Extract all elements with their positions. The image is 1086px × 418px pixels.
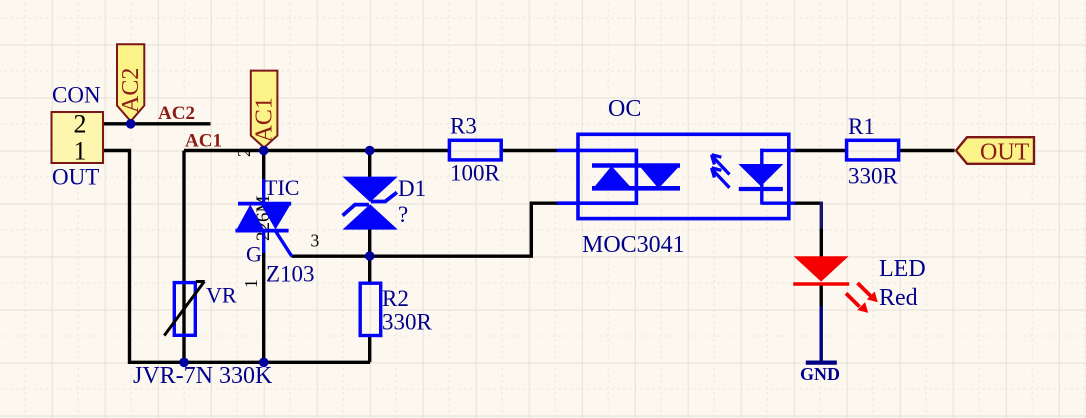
value JVR-7N 330K [133,363,273,389]
pin number 1 rotated [241,279,261,288]
value 226M rotated [253,196,274,242]
connector CON [52,83,104,190]
value MOC3041 [582,232,685,258]
svg-text:LED: LED [879,256,926,282]
pin 2 of CON [74,110,87,139]
svg-text:100R: 100R [450,161,501,186]
wire R3 left [502,149,557,152]
svg-text:330R: 330R [848,164,899,189]
value 100R of R3 [450,161,501,186]
resistor R3 [449,140,501,160]
wire OC to LED [794,202,821,257]
svg-text:AC1: AC1 [185,131,222,152]
wire net AC1 horizontal [184,149,449,152]
svg-text:3: 3 [311,231,320,251]
svg-text:TIC: TIC [264,175,299,200]
optocoupler OC box [578,134,789,218]
junction dot D1 top [365,146,375,156]
svg-text:GND: GND [800,364,840,384]
svg-text:OUT: OUT [980,140,1030,166]
svg-text:G: G [246,242,262,267]
junction dot AC2 [126,119,136,129]
port AC2 [117,44,144,121]
designator OC [608,96,641,122]
wire R2 bottom [368,335,371,362]
junction dot triac bottom [259,358,269,368]
svg-text:CON: CON [52,83,101,108]
wire VR column [182,151,185,363]
designator VR [206,283,237,308]
wire LED to ground [820,286,823,308]
designator R1 [848,114,875,139]
svg-text:JVR-7N 330K: JVR-7N 330K [133,363,273,389]
wire triac MT2 [262,151,265,183]
designator LED [879,256,926,282]
port OUT [956,137,1034,165]
ground GND [800,306,840,384]
wire OC to R1 [794,149,847,152]
value Red [879,285,918,311]
svg-text:R2: R2 [382,286,409,311]
value 330R of R1 [848,164,899,189]
svg-text:D1: D1 [398,176,426,201]
svg-text:R3: R3 [450,114,477,139]
svg-text:OUT: OUT [52,165,99,190]
diac D1 [343,177,398,230]
wire D1 bottom to R2 [368,230,371,285]
wire R1 to OUT port [899,149,955,152]
junction dot VR bottom [179,358,189,368]
wire gate bus to optocoupler [292,203,558,256]
LED arrows [846,283,878,313]
optocoupler LED element [738,149,795,205]
net label AC1 [185,131,222,152]
net label AC2 [158,103,195,124]
svg-text:R1: R1 [848,114,875,139]
port AC1 [251,71,278,148]
optocoupler triac element [592,166,680,189]
wire pin2 to AC2 [103,122,211,125]
resistor R2 [360,283,381,335]
designator R3 [450,114,477,139]
pin 1 of CON [74,137,87,166]
pin label G [246,242,262,267]
svg-text:VR: VR [206,283,237,308]
svg-text:AC1: AC1 [252,97,278,142]
svg-text:OC: OC [608,96,641,122]
svg-text:2: 2 [74,110,87,139]
designator R2 [382,286,409,311]
optocoupler left bracket and pins [557,149,636,205]
svg-text:1: 1 [74,137,87,166]
svg-text:330R: 330R [382,310,433,335]
wire pin1 down and bottom bus [103,151,370,363]
junction dot D1 bottom [365,251,375,261]
wire D1 top [368,151,371,178]
value Z103 [266,262,315,287]
pin number 3 [311,231,320,251]
svg-text:1: 1 [241,279,261,288]
svg-text:?: ? [398,202,408,227]
svg-text:AC2: AC2 [158,103,195,124]
svg-text:MOC3041: MOC3041 [582,232,685,258]
svg-text:Red: Red [879,285,918,311]
designator D1 [398,176,426,201]
svg-text:2: 2 [234,148,254,157]
optocoupler arrows [712,155,730,188]
junction dot AC1 [259,146,269,156]
wire triac MT1 down [262,252,265,362]
designator TIC [264,175,299,200]
varistor VR [164,282,205,336]
value ? [398,202,408,227]
svg-text:Z103: Z103 [266,262,315,287]
value 330R of R2 [382,310,433,335]
svg-text:AC2: AC2 [118,68,144,113]
LED diode [793,256,849,284]
triac TIC [235,179,291,256]
resistor R1 [847,140,899,160]
pin number 2 rotated [234,148,254,157]
